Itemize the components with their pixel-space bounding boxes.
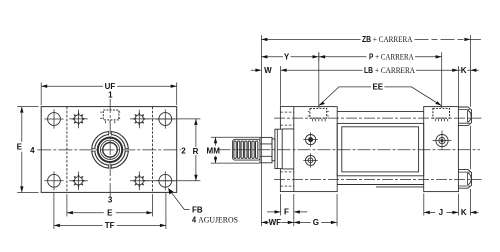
extension rear face top — [457, 66, 459, 106]
dim WF — [261, 221, 293, 224]
svg-text:ZB + CARRERA: ZB + CARRERA — [362, 34, 413, 44]
extension line B (shoulder plane top) — [280, 66, 282, 106]
hidden tube lines (vertical dashed) — [67, 107, 153, 193]
extension line A (rod end plane) — [260, 35, 262, 226]
dim K bottom (arrow outside) — [470, 211, 478, 214]
gland flange edges — [282, 129, 294, 169]
extension left port centerline — [318, 52, 320, 108]
tie rod hidden stub top-left — [280, 112, 293, 125]
svg-text:K: K — [461, 208, 467, 217]
svg-text:4 AGUJEROS: 4 AGUJEROS — [192, 214, 238, 224]
cylinder tube — [337, 123, 424, 175]
port square (top view of port, hidden) — [100, 110, 120, 123]
svg-text:2: 2 — [181, 147, 186, 156]
tie rod hidden stub bottom-left — [280, 172, 293, 186]
threaded hole top-left — [69, 110, 88, 129]
dim J — [424, 211, 459, 214]
extension right cap front face below (J) — [423, 194, 425, 216]
tie rod bottom edges — [337, 185, 424, 187]
dim G — [294, 221, 337, 224]
head (left cap) — [294, 107, 337, 192]
svg-text:4: 4 — [30, 146, 35, 155]
dim Y — [261, 52, 318, 61]
svg-text:FB: FB — [192, 206, 203, 215]
svg-text:P + CARRERA: P + CARRERA — [369, 52, 414, 62]
svg-text:3: 3 — [108, 196, 113, 205]
threaded hole top-right — [130, 110, 149, 129]
extension line B lower (F plane) — [280, 194, 282, 215]
corner hole FB bottom-left — [44, 171, 63, 190]
dim R (right, vertical) — [146, 119, 200, 181]
svg-text:LB + CARRERA: LB + CARRERA — [364, 65, 416, 75]
horizontal centerline (node 2-4 axis) — [37, 149, 180, 151]
svg-text:E: E — [107, 209, 113, 218]
EE leader right — [384, 87, 441, 106]
corner hole FB top-right — [156, 109, 175, 128]
dim E (bottom) — [67, 194, 153, 216]
svg-text:W: W — [264, 66, 272, 75]
dim P + CARRERA — [319, 55, 442, 58]
extension tie-rod end (ZB/K plane) — [469, 35, 471, 216]
FB leader — [168, 188, 189, 209]
extension cap rear face below (G) — [336, 194, 338, 226]
flange plate outline — [41, 107, 177, 193]
tie rod nut bottom-right — [458, 170, 471, 189]
rod neck — [272, 139, 275, 161]
svg-text:J: J — [439, 208, 443, 217]
tie rod centerline bottom — [274, 179, 482, 181]
corner hole FB top-left — [44, 109, 63, 128]
extension cap front face below — [293, 194, 295, 226]
svg-text:EE: EE — [372, 83, 383, 92]
svg-text:1: 1 — [108, 91, 113, 100]
svg-text:TF: TF — [105, 221, 115, 230]
tie rod top edge — [337, 111, 424, 113]
central boss (gland retainer circles) — [91, 131, 129, 169]
rear cap hole — [433, 130, 452, 149]
head bolt upper — [303, 132, 318, 147]
tie rod centerline top — [274, 117, 482, 119]
corner hole FB bottom-right — [156, 171, 175, 190]
svg-text:F: F — [284, 208, 289, 217]
dim UF — [41, 82, 177, 105]
dim MM (rod diameter) — [211, 137, 260, 163]
dim W (arrows outside) — [251, 69, 262, 72]
dim LB + CARRERA — [281, 69, 459, 72]
rod shoulder / wrench flats — [260, 137, 272, 162]
svg-text:WF: WF — [269, 218, 282, 227]
rod thread — [233, 139, 260, 160]
head bolt lower — [303, 153, 317, 167]
svg-text:R: R — [193, 147, 199, 156]
gland retainer plate — [275, 129, 282, 168]
dim K top (arrows outside) — [458, 69, 478, 72]
svg-text:MM: MM — [207, 147, 221, 156]
svg-text:K: K — [461, 66, 467, 75]
svg-text:E: E — [17, 143, 23, 152]
svg-text:G: G — [313, 218, 319, 227]
dim TF (bottom) — [54, 193, 166, 229]
main centerline — [218, 149, 481, 151]
extension rear face bottom — [457, 194, 459, 216]
vertical centerline (node 1-3 axis) — [109, 99, 111, 197]
rear cap (right) — [424, 107, 459, 192]
svg-text:Y: Y — [284, 53, 290, 62]
threaded hole bottom-left — [69, 172, 88, 191]
right port (hidden) — [433, 108, 450, 121]
dim E (left, vertical) — [17, 107, 38, 193]
extension right port centerline — [441, 52, 443, 108]
threaded hole bottom-right — [130, 172, 149, 191]
mounting flange plate (side view) — [280, 107, 293, 192]
dim ZB + CARRERA — [261, 38, 481, 41]
dim F (arrows outside) — [267, 210, 307, 213]
left port (hidden) — [308, 108, 329, 121]
EE leader left — [319, 87, 371, 106]
tie rod nut top-right — [458, 107, 471, 126]
